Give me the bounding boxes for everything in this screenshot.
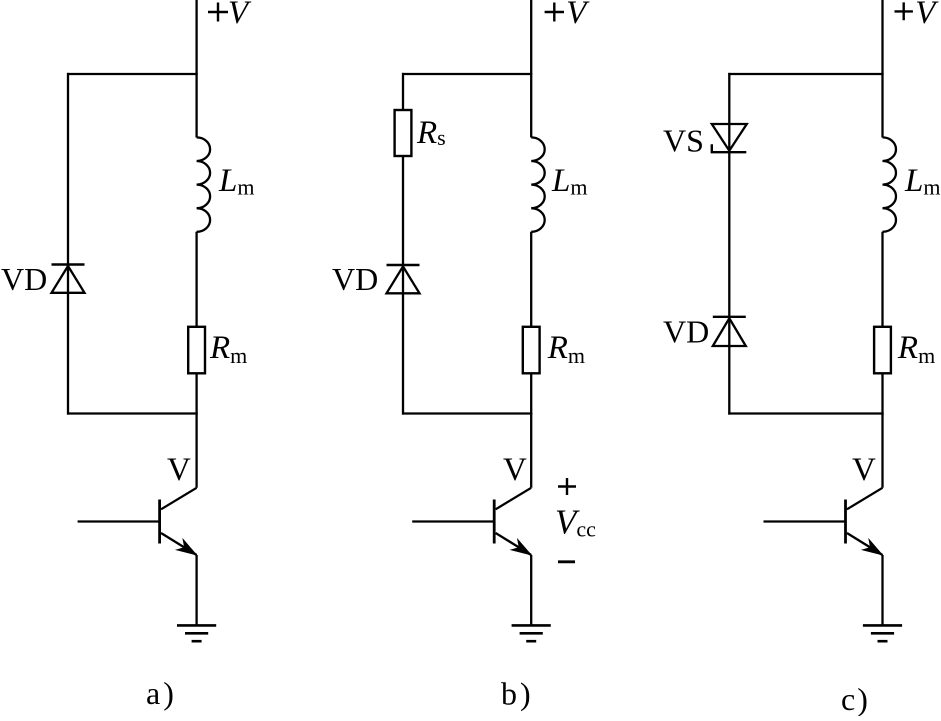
svg-text:V: V [852, 452, 876, 488]
wire: top rail horizontal (b) [402, 73, 532, 75]
svg-text:VD: VD [1, 261, 47, 297]
svg-text:c): c) [841, 681, 870, 716]
wire: collector vertical (a) [195, 414, 197, 488]
wire: bottom rail horizontal (c) [728, 412, 883, 414]
wire: resistor to bottom rail (c) [881, 373, 883, 414]
transistor V (c) base bar [844, 500, 847, 544]
wire: resistor to bottom rail (a) [195, 373, 197, 414]
inductor Lm (a) [197, 137, 211, 231]
diode VD (a) cathode bar [52, 263, 85, 265]
resistor Rs (b) [395, 110, 412, 156]
inductor Lm (c) [883, 137, 897, 231]
zener diode VS (c) cathode bar with hook [712, 144, 747, 152]
resistor Rm (c) [874, 327, 891, 374]
diode VD (c) triangle [713, 318, 746, 346]
wire: bottom rail horizontal (a) [67, 412, 198, 414]
zener diode VS (c) triangle [712, 124, 747, 151]
wire: +V supply vertical (c) [881, 0, 883, 138]
transistor V (a) emitter arrow [177, 540, 196, 555]
label +V (b) plus sign [545, 3, 564, 22]
svg-text:VS: VS [663, 123, 704, 159]
wire: emitter to ground (a) [195, 555, 197, 625]
svg-text:a): a) [146, 675, 177, 711]
transistor V (a) base lead [78, 520, 160, 522]
wire: inductor to resistor (b) [530, 232, 532, 327]
wire: collector vertical (c) [881, 414, 883, 488]
ground (c) [863, 624, 902, 627]
transistor V (a) emitter diagonal [161, 533, 197, 555]
wire: top rail horizontal (c) [728, 73, 883, 75]
wire: +V supply vertical (a) [195, 0, 197, 138]
wire: emitter to ground (b) [530, 555, 532, 625]
ground (a) [177, 624, 216, 627]
transistor V (b) emitter arrow [512, 540, 531, 555]
svg-text:V: V [503, 452, 527, 488]
resistor Rm (b) [523, 327, 540, 374]
ground (b) [512, 624, 551, 627]
inductor Lm (b) [531, 137, 545, 231]
label + (Vcc plus sign) [558, 478, 576, 495]
wire: +V supply vertical (b) [530, 0, 532, 138]
wire: bottom rail horizontal (b) [402, 412, 532, 414]
transistor V (c) base lead [764, 520, 846, 522]
diode VD (b) cathode bar [387, 264, 420, 266]
label minus (Vcc minus sign) [558, 560, 575, 563]
transistor V (b) base bar [493, 500, 496, 544]
label +V (c) plus sign [895, 2, 913, 20]
svg-text:VD: VD [663, 314, 709, 350]
wire: inductor to resistor (a) [195, 232, 197, 327]
transistor V (a) base bar [158, 500, 161, 544]
svg-text:V: V [167, 452, 191, 488]
transistor V (c) emitter diagonal [847, 533, 883, 555]
diode VD (a) triangle [52, 266, 85, 293]
wire: top rail horizontal (a) [67, 73, 198, 75]
transistor V (b) emitter diagonal [496, 533, 532, 555]
resistor Rm (a) [188, 327, 205, 374]
diode VD (c) cathode bar [713, 316, 746, 318]
wire: left branch vertical upper (c) [728, 73, 730, 151]
label +V (a) plus sign [208, 3, 228, 22]
wire: resistor to bottom rail (b) [530, 373, 532, 414]
wire: collector vertical (b) [530, 414, 532, 488]
wire: emitter to ground (c) [881, 555, 883, 625]
svg-text:VD: VD [332, 261, 378, 297]
transistor V (a) collector diagonal [161, 488, 197, 510]
diode VD (b) triangle [387, 267, 420, 294]
wire: VD to bottom rail (c) [728, 346, 730, 415]
wire: left branch vertical (a) [67, 73, 69, 415]
transistor V (b) base lead [412, 520, 494, 522]
wire: left branch vertical (b) [402, 73, 404, 415]
wire: VS to VD (c) [728, 152, 730, 346]
wire: inductor to resistor (c) [881, 232, 883, 327]
transistor V (b) collector diagonal [496, 488, 532, 510]
svg-text:b): b) [501, 676, 534, 712]
transistor V (c) emitter arrow [863, 540, 882, 555]
transistor V (c) collector diagonal [847, 488, 883, 510]
